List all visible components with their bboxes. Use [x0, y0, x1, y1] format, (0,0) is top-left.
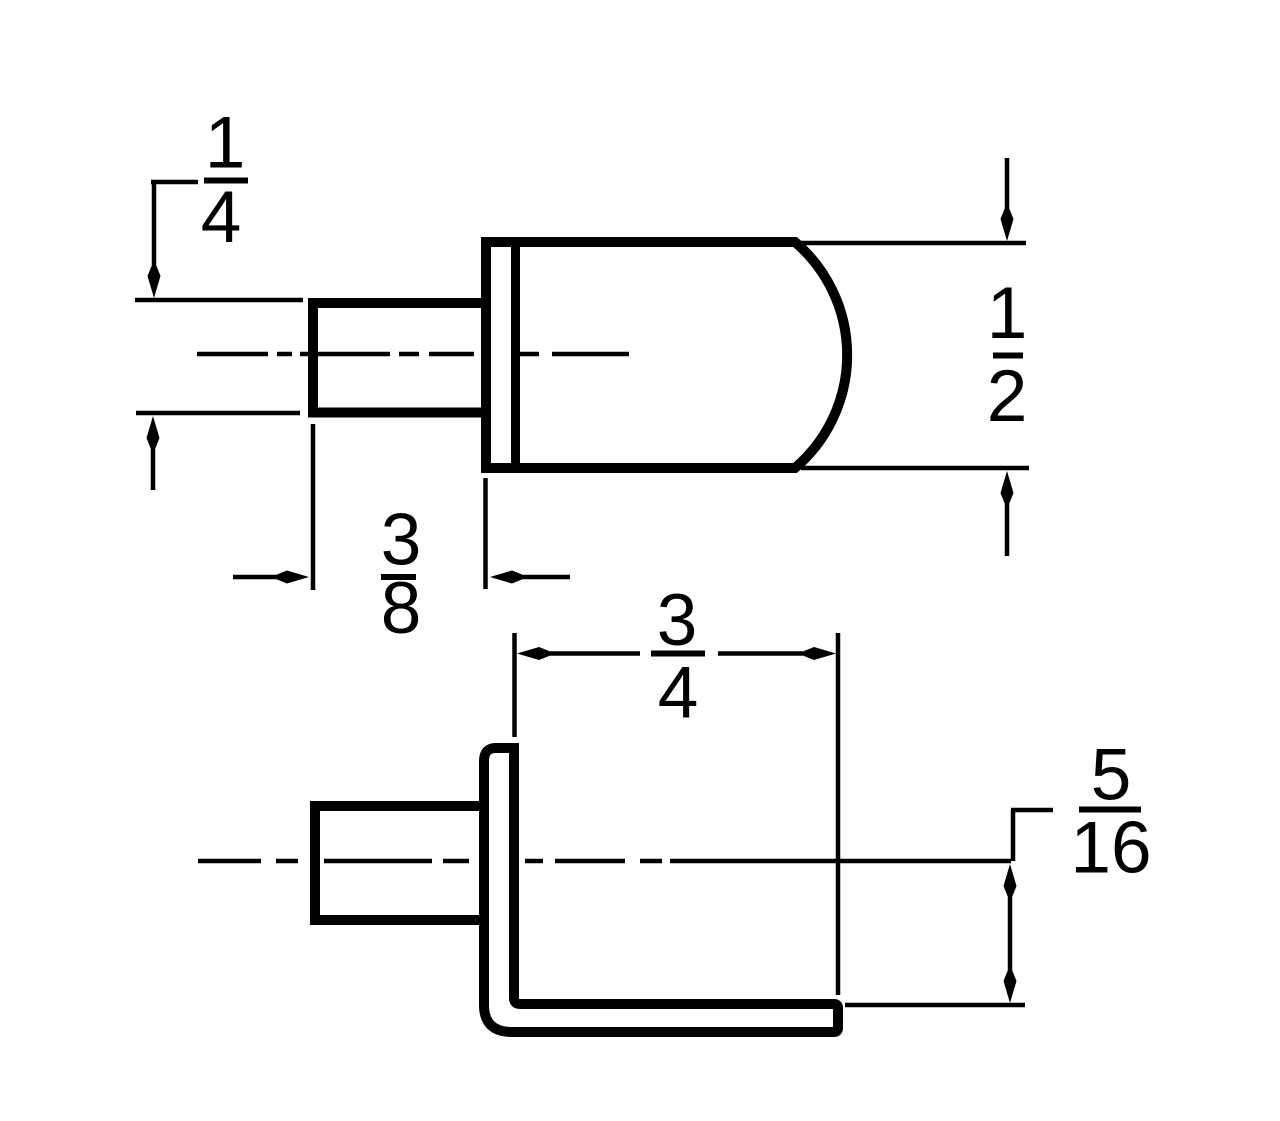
svg-text:16: 16 — [1070, 808, 1151, 889]
svg-text:1: 1 — [987, 273, 1028, 354]
dimension 5/16: bottom extension line — [845, 1003, 1025, 1008]
dimension 5/16: vertical dimension line with arrows — [1004, 864, 1017, 896]
top view: pin shank — [313, 303, 486, 413]
top view: flange inner line — [511, 245, 520, 464]
dimension 1/4: text — [201, 103, 246, 259]
dimension 3/8: text — [381, 500, 422, 650]
svg-text:3: 3 — [657, 580, 698, 661]
dimension 3/4: text — [657, 580, 699, 734]
dimension 3/8: right segment with left-pointing arrow — [490, 571, 522, 584]
dimension 3/8: extension lines — [313, 424, 486, 590]
svg-text:4: 4 — [658, 653, 699, 734]
dimension 3/8: left segment with right-pointing arrow — [233, 575, 280, 580]
dimension 1/2: text — [987, 273, 1028, 437]
dimension 1/2: extension lines — [801, 243, 1029, 468]
dimension 1/4: leader — [151, 182, 198, 266]
svg-text:1: 1 — [205, 103, 246, 184]
bottom view: centerline — [198, 859, 1011, 864]
top view: pin body outline with bullet nose — [486, 242, 847, 468]
svg-text:2: 2 — [987, 356, 1028, 437]
top view: centerline — [197, 352, 629, 357]
dimension 1/2: down arrow — [1005, 158, 1010, 212]
dimension 5/16: text — [1070, 735, 1151, 889]
svg-text:4: 4 — [201, 177, 242, 258]
dimension 3/4: right arrow segment — [718, 651, 807, 656]
dimension 3/4: left arrow segment — [517, 647, 549, 660]
svg-text:8: 8 — [381, 568, 422, 649]
svg-text:5: 5 — [1091, 735, 1132, 816]
bottom view: L-bracket outline — [484, 748, 838, 1032]
dimension 1/4: extension lines — [135, 300, 303, 413]
dimension 1/4: up arrow — [147, 416, 160, 448]
bottom view: pin shank — [315, 806, 484, 920]
dimension 3/4: extension lines — [515, 633, 839, 995]
dimension 5/16: leader — [1011, 810, 1053, 861]
dimension 1/2: up arrow — [1001, 471, 1014, 503]
dimension 1/4: down arrow — [148, 266, 161, 298]
